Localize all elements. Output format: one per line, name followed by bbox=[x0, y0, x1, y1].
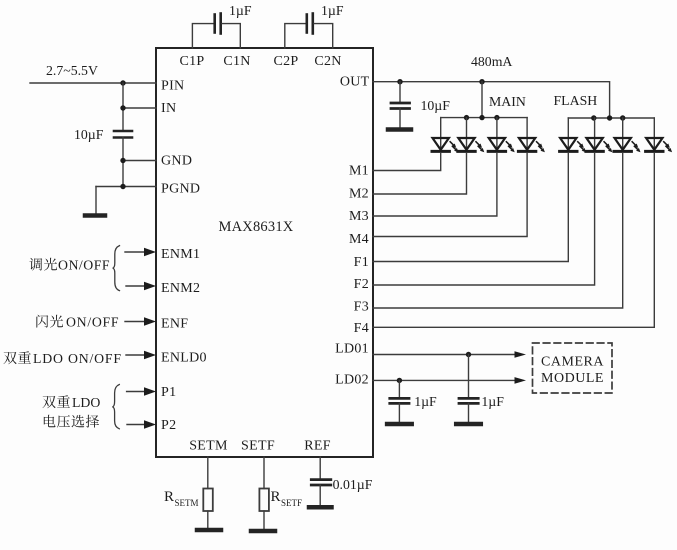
wire LD01 bbox=[373, 354, 515, 356]
svg-text:C1P: C1P bbox=[179, 54, 204, 69]
resistor RSETF label bbox=[271, 489, 303, 508]
junction dot at PGND bbox=[120, 184, 125, 189]
svg-text:0.01µF: 0.01µF bbox=[333, 477, 373, 492]
svg-text:SETM: SETM bbox=[189, 439, 228, 454]
junction dot at IN bbox=[120, 105, 125, 110]
wire C2P stub bbox=[285, 24, 306, 48]
label dual LDO voltage select line2 (Chinese) bbox=[44, 415, 99, 428]
svg-text:M1: M1 bbox=[349, 164, 369, 179]
wire LD02 bbox=[373, 379, 515, 381]
wire F4 bbox=[373, 153, 654, 327]
svg-text:M4: M4 bbox=[349, 232, 369, 247]
ground G5 bbox=[197, 528, 221, 533]
wire C6 to ground bbox=[468, 403, 470, 422]
LED D5 flash bbox=[560, 138, 587, 152]
resistor RSETM label bbox=[164, 489, 199, 508]
svg-text:M2: M2 bbox=[349, 186, 369, 201]
wire PGND to ground bbox=[95, 187, 97, 215]
svg-text:REF: REF bbox=[304, 439, 331, 454]
LED D4 main bbox=[518, 138, 545, 152]
svg-text:R: R bbox=[164, 489, 174, 505]
junction dot LD01 cap tap bbox=[466, 352, 471, 357]
wire C2N stub bbox=[314, 24, 333, 48]
arrow into ENF bbox=[125, 321, 145, 323]
capacitor C3 10uF plates bbox=[114, 131, 132, 138]
wire RSETF to ground bbox=[263, 511, 265, 529]
wire C4 to ground bbox=[399, 109, 401, 128]
capacitor C6 1uF plates bbox=[459, 398, 478, 403]
wire supply to PIN bbox=[30, 82, 156, 84]
svg-text:LDO: LDO bbox=[72, 395, 100, 410]
ground G7 bbox=[309, 505, 332, 510]
ground G3 bbox=[387, 422, 412, 427]
wire GND stub bbox=[123, 160, 156, 162]
resistor RSETM body bbox=[203, 489, 213, 512]
wire C1N stub bbox=[222, 24, 240, 48]
arrow into ENM1 bbox=[125, 251, 145, 253]
svg-text:PGND: PGND bbox=[161, 182, 200, 197]
svg-text:SETM: SETM bbox=[175, 498, 199, 508]
LED D1 main bbox=[432, 138, 459, 152]
wire OUT rail bbox=[373, 82, 610, 118]
svg-text:R: R bbox=[271, 489, 281, 505]
resistor RSETF body bbox=[259, 489, 269, 512]
svg-text:MODULE: MODULE bbox=[541, 371, 604, 386]
wire F1 bbox=[373, 153, 568, 262]
wire M3 bbox=[373, 153, 497, 216]
ground G4 bbox=[456, 422, 481, 427]
svg-text:CAMERA: CAMERA bbox=[541, 354, 604, 369]
wire C1P stub bbox=[192, 24, 213, 48]
wire input bus vertical bbox=[122, 83, 124, 131]
svg-text:ENM2: ENM2 bbox=[161, 281, 200, 296]
wire SETF bbox=[263, 457, 265, 489]
svg-text:MAIN: MAIN bbox=[489, 94, 526, 109]
junction dot at PIN bbox=[120, 80, 125, 85]
capacitor C5 1uF plates bbox=[390, 398, 409, 403]
wire RSETM to ground bbox=[207, 511, 209, 528]
ground G2 bbox=[388, 127, 411, 132]
LED D7 flash bbox=[614, 138, 641, 152]
svg-text:ENLD0: ENLD0 bbox=[161, 351, 207, 366]
label dual LDO voltage select line1 (Chinese) bbox=[43, 395, 101, 410]
LED D3 main bbox=[488, 138, 515, 152]
capacitor C7 plates bbox=[311, 480, 331, 485]
wire FLASH anode bus bbox=[568, 117, 654, 119]
wire M4 bbox=[373, 153, 527, 237]
junction dot MAIN feed bbox=[479, 79, 484, 84]
svg-text:ON/OFF: ON/OFF bbox=[58, 258, 110, 273]
wire C5 to ground bbox=[398, 403, 400, 422]
svg-text:1µF: 1µF bbox=[321, 3, 344, 18]
wire M2 bbox=[373, 153, 467, 194]
LED D6 flash bbox=[586, 138, 613, 152]
junction dots MAIN bus bbox=[464, 115, 469, 120]
capacitor C4 10uF plates bbox=[391, 103, 410, 109]
ground G1 bbox=[85, 213, 105, 218]
camera module dashed box bbox=[533, 343, 613, 393]
junction dot LD02 cap tap bbox=[397, 378, 402, 383]
junction dot at GND bbox=[120, 158, 125, 163]
svg-text:F2: F2 bbox=[354, 277, 369, 292]
svg-text:1µF: 1µF bbox=[414, 394, 437, 409]
wire M1 bbox=[373, 153, 441, 171]
svg-text:ENM1: ENM1 bbox=[161, 247, 200, 262]
arrow into P1 bbox=[127, 391, 145, 393]
svg-text:F1: F1 bbox=[354, 255, 369, 270]
wire SETM bbox=[207, 457, 209, 489]
svg-text:C2N: C2N bbox=[314, 54, 341, 69]
wire cap to GND row bbox=[122, 138, 124, 187]
svg-text:ENF: ENF bbox=[161, 316, 188, 331]
wire MAIN feed down bbox=[481, 82, 483, 118]
svg-text:SETF: SETF bbox=[281, 498, 302, 508]
wire MAIN anode bus bbox=[441, 117, 527, 119]
svg-text:OUT: OUT bbox=[340, 75, 370, 90]
svg-text:FLASH: FLASH bbox=[554, 93, 598, 108]
svg-text:LDO ON/OFF: LDO ON/OFF bbox=[33, 351, 122, 366]
label flash ON/OFF (Chinese) bbox=[36, 315, 119, 330]
svg-text:LD01: LD01 bbox=[335, 342, 369, 357]
svg-text:C2P: C2P bbox=[273, 54, 298, 69]
svg-text:1µF: 1µF bbox=[481, 394, 504, 409]
junction dot OUT cap tap bbox=[397, 79, 402, 84]
svg-text:PIN: PIN bbox=[161, 79, 184, 94]
svg-text:F4: F4 bbox=[354, 321, 369, 336]
svg-text:F3: F3 bbox=[354, 300, 369, 315]
junction dots FLASH bus bbox=[591, 115, 596, 120]
capacitor C2 1uF plates bbox=[307, 14, 313, 34]
LED D8 flash bbox=[646, 138, 673, 152]
brace for P1 P2 bbox=[112, 385, 119, 429]
wire REF bbox=[319, 457, 321, 480]
ground G6 bbox=[251, 529, 275, 534]
arrow LD01 to camera module bbox=[515, 351, 527, 358]
svg-text:P1: P1 bbox=[161, 385, 176, 400]
label dimming ON/OFF (Chinese) bbox=[29, 258, 110, 273]
arrow LD02 to camera module bbox=[515, 377, 527, 384]
wire LED anode stubs bbox=[441, 118, 655, 152]
svg-text:LD02: LD02 bbox=[335, 373, 369, 388]
brace for ENM1 ENM2 bbox=[113, 246, 120, 291]
wire C7 to ground bbox=[319, 485, 321, 505]
svg-text:480mA: 480mA bbox=[471, 54, 512, 69]
label dual LDO ON/OFF (Chinese) bbox=[4, 351, 122, 366]
capacitor C1 1uF plates bbox=[215, 14, 221, 34]
IC U1 MAX8631X body bbox=[156, 48, 373, 457]
svg-text:10µF: 10µF bbox=[421, 98, 451, 113]
svg-text:MAX8631X: MAX8631X bbox=[219, 219, 294, 235]
wire LD02 to C5 bbox=[398, 380, 400, 398]
wire F2 bbox=[373, 153, 595, 285]
arrow into P2 bbox=[127, 424, 145, 426]
svg-text:GND: GND bbox=[161, 154, 192, 169]
wire to C4 bbox=[399, 82, 401, 103]
wire F3 bbox=[373, 153, 623, 308]
wire LD01 to C6 bbox=[468, 355, 470, 399]
svg-text:C1N: C1N bbox=[223, 54, 250, 69]
svg-text:IN: IN bbox=[161, 101, 176, 116]
svg-text:P2: P2 bbox=[161, 418, 176, 433]
svg-text:SETF: SETF bbox=[241, 439, 275, 454]
svg-text:M3: M3 bbox=[349, 209, 369, 224]
svg-text:ON/OFF: ON/OFF bbox=[66, 315, 119, 330]
arrow into ENM2 bbox=[126, 285, 145, 287]
arrow into ENLD0 bbox=[126, 354, 145, 356]
svg-text:10µF: 10µF bbox=[74, 127, 104, 142]
svg-text:1µF: 1µF bbox=[229, 3, 252, 18]
wire PGND row bbox=[96, 186, 156, 188]
svg-text:2.7~5.5V: 2.7~5.5V bbox=[46, 63, 98, 78]
LED D2 main bbox=[458, 138, 485, 152]
wire IN stub bbox=[123, 107, 156, 109]
